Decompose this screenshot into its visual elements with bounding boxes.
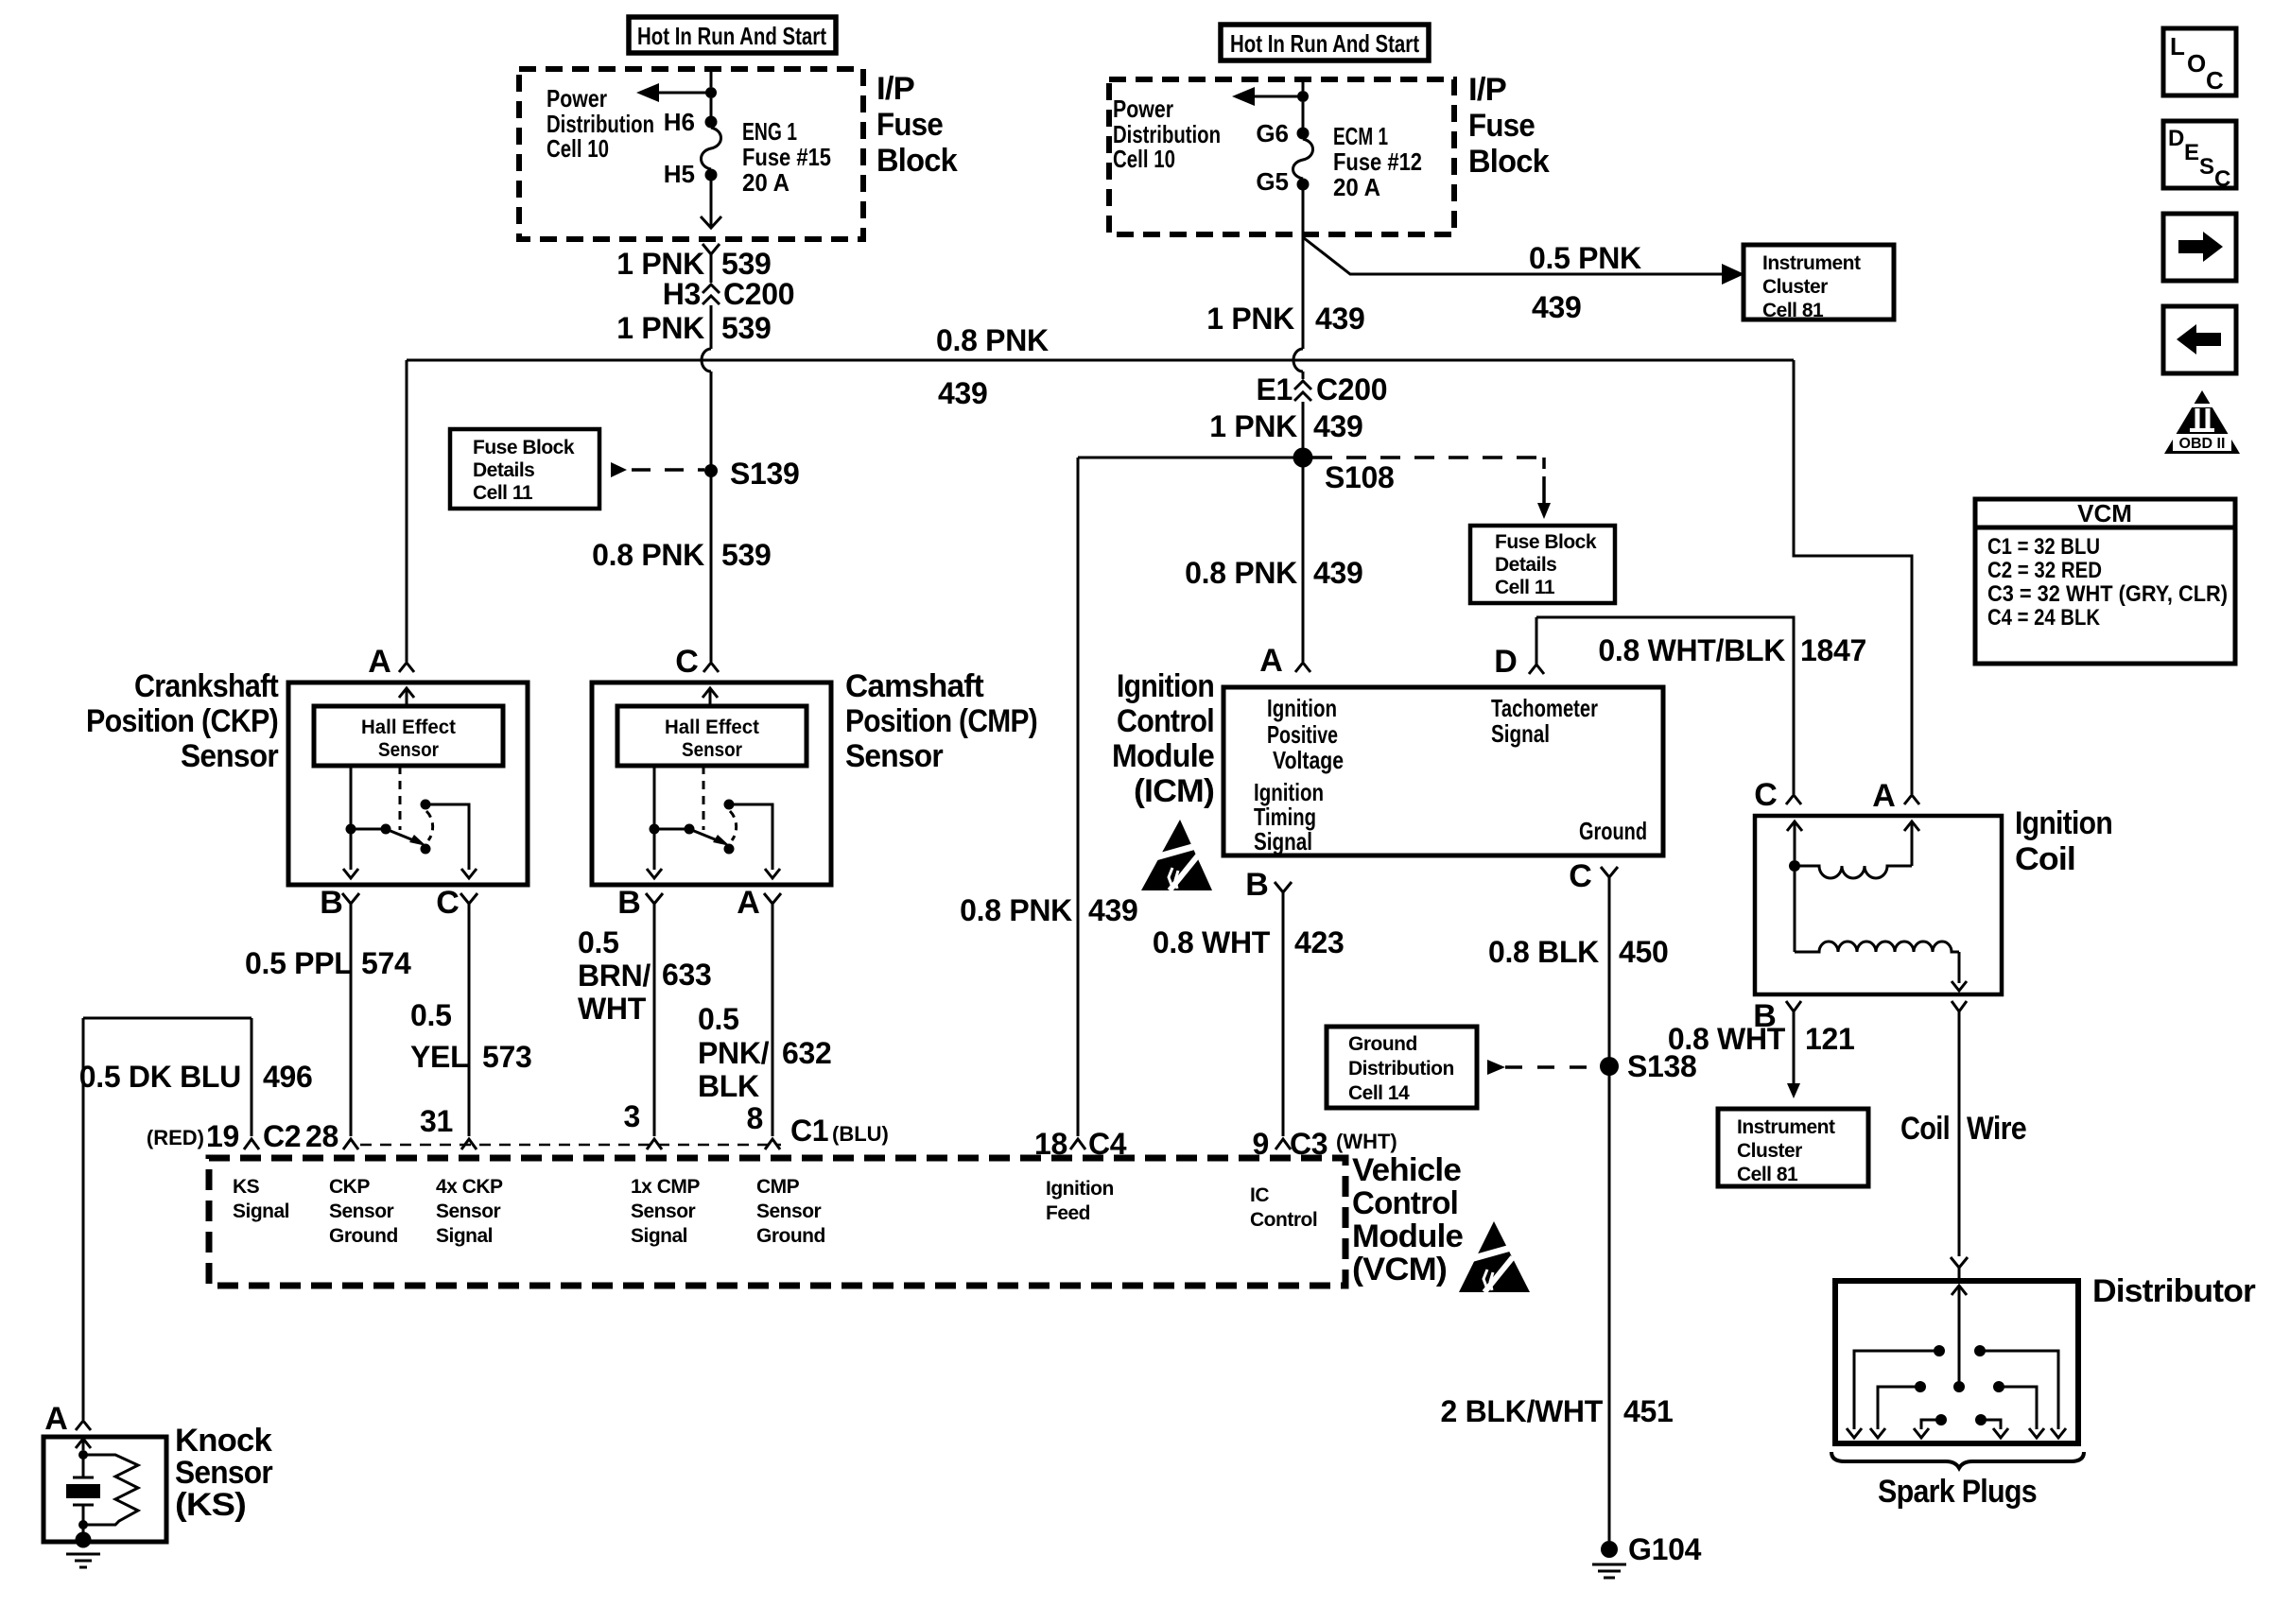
svg-text:0.8 WHT: 0.8 WHT <box>1153 925 1271 959</box>
svg-text:573: 573 <box>482 1040 532 1074</box>
svg-text:3: 3 <box>624 1099 641 1133</box>
svg-text:Hall Effect: Hall Effect <box>665 717 759 738</box>
svg-text:539: 539 <box>721 538 772 572</box>
svg-text:C200: C200 <box>723 277 794 311</box>
svg-text:C1: C1 <box>790 1114 828 1148</box>
svg-text:121: 121 <box>1805 1022 1855 1056</box>
svg-text:Sensor: Sensor <box>378 739 439 761</box>
svg-text:Sensor: Sensor <box>682 739 742 761</box>
svg-text:(VCM): (VCM) <box>1352 1252 1447 1287</box>
svg-text:Positive: Positive <box>1267 720 1338 749</box>
svg-text:Crankshaft: Crankshaft <box>134 668 278 704</box>
svg-text:Feed: Feed <box>1046 1202 1090 1224</box>
svg-text:S108: S108 <box>1325 460 1395 494</box>
svg-text:439: 439 <box>1313 556 1363 590</box>
svg-text:Sensor: Sensor <box>756 1201 822 1222</box>
svg-text:Signal: Signal <box>436 1225 493 1247</box>
svg-text:Cell 81: Cell 81 <box>1762 300 1824 321</box>
svg-text:E1: E1 <box>1256 372 1293 406</box>
svg-text:Control: Control <box>1117 703 1214 739</box>
svg-text:VCM: VCM <box>2077 499 2132 527</box>
svg-text:H3: H3 <box>663 277 701 311</box>
svg-text:451: 451 <box>1623 1394 1674 1428</box>
svg-text:Fuse #15: Fuse #15 <box>742 143 831 171</box>
svg-text:439: 439 <box>1313 409 1363 443</box>
svg-text:496: 496 <box>263 1060 313 1094</box>
svg-text:439: 439 <box>1088 893 1138 927</box>
svg-text:Signal: Signal <box>1254 827 1312 855</box>
svg-text:D: D <box>1494 644 1517 680</box>
svg-text:CMP: CMP <box>756 1176 800 1198</box>
svg-text:H5: H5 <box>664 160 695 188</box>
svg-text:0.5: 0.5 <box>410 998 452 1032</box>
svg-text:Ignition: Ignition <box>1046 1178 1114 1200</box>
svg-text:C3: C3 <box>1290 1127 1327 1161</box>
svg-text:C: C <box>675 644 698 680</box>
svg-text:(WHT): (WHT) <box>1336 1130 1397 1153</box>
svg-text:2 BLK/WHT: 2 BLK/WHT <box>1440 1394 1603 1428</box>
svg-text:423: 423 <box>1294 925 1345 959</box>
svg-text:0.8 WHT/BLK: 0.8 WHT/BLK <box>1598 633 1785 667</box>
svg-text:CKP: CKP <box>329 1176 370 1198</box>
svg-text:C3 = 32 WHT (GRY, CLR): C3 = 32 WHT (GRY, CLR) <box>1987 581 2228 607</box>
svg-text:BRN/: BRN/ <box>578 959 651 993</box>
svg-text:C200: C200 <box>1316 372 1387 406</box>
svg-text:Coil: Coil <box>2015 841 2075 877</box>
svg-text:Sensor: Sensor <box>329 1201 394 1222</box>
svg-text:S: S <box>2199 154 2214 180</box>
svg-text:28: 28 <box>305 1119 338 1153</box>
svg-text:Cluster: Cluster <box>1737 1140 1802 1162</box>
svg-text:Power: Power <box>547 84 607 112</box>
svg-text:Sensor: Sensor <box>175 1455 273 1491</box>
svg-text:WHT: WHT <box>578 992 647 1026</box>
svg-text:Hot In Run And Start: Hot In Run And Start <box>1230 29 1419 58</box>
svg-text:Tachometer: Tachometer <box>1491 694 1598 722</box>
svg-text:Fuse Block: Fuse Block <box>1495 531 1597 553</box>
svg-text:D: D <box>2168 126 2184 151</box>
svg-text:1 PNK: 1 PNK <box>616 311 704 345</box>
svg-text:Sensor: Sensor <box>631 1201 696 1222</box>
svg-text:L: L <box>2170 32 2185 60</box>
svg-text:Distributor: Distributor <box>2092 1273 2256 1309</box>
svg-text:Voltage: Voltage <box>1273 746 1344 774</box>
svg-text:0.8 PNK: 0.8 PNK <box>1185 556 1297 590</box>
svg-text:OBD II: OBD II <box>2179 436 2226 452</box>
svg-text:1x CMP: 1x CMP <box>631 1176 700 1198</box>
svg-text:Ground: Ground <box>1579 817 1647 845</box>
svg-text:(RED): (RED) <box>147 1126 204 1149</box>
svg-text:G104: G104 <box>1628 1532 1702 1566</box>
svg-text:Instrument: Instrument <box>1737 1116 1835 1138</box>
svg-text:Coil: Coil <box>1900 1111 1950 1147</box>
svg-text:Signal: Signal <box>233 1201 289 1222</box>
svg-text:4x CKP: 4x CKP <box>436 1176 503 1198</box>
svg-text:20 A: 20 A <box>742 168 789 197</box>
svg-text:Ignition: Ignition <box>1117 668 1214 704</box>
svg-text:Sensor: Sensor <box>436 1201 501 1222</box>
svg-text:A: A <box>44 1401 67 1437</box>
svg-text:439: 439 <box>1315 302 1365 336</box>
svg-text:E: E <box>2184 140 2199 165</box>
svg-text:Signal: Signal <box>631 1225 687 1247</box>
svg-text:Ground: Ground <box>329 1225 398 1247</box>
svg-text:C4 = 24 BLK: C4 = 24 BLK <box>1987 605 2101 631</box>
svg-text:Cell 11: Cell 11 <box>1495 577 1555 598</box>
svg-text:0.5 DK BLU: 0.5 DK BLU <box>79 1060 241 1094</box>
svg-text:1847: 1847 <box>1800 633 1866 667</box>
svg-text:9: 9 <box>1253 1127 1270 1161</box>
svg-text:Cell 10: Cell 10 <box>547 134 609 163</box>
svg-text:C: C <box>1569 858 1591 894</box>
svg-text:Sensor: Sensor <box>845 738 944 774</box>
svg-text:Camshaft: Camshaft <box>845 668 983 704</box>
svg-text:19: 19 <box>206 1119 239 1153</box>
svg-text:Details: Details <box>473 459 534 481</box>
svg-text:574: 574 <box>361 946 411 980</box>
svg-text:Ignition: Ignition <box>1267 694 1337 722</box>
svg-text:PNK/: PNK/ <box>698 1036 770 1070</box>
svg-text:31: 31 <box>420 1104 453 1138</box>
svg-text:I/P: I/P <box>1468 72 1506 108</box>
svg-text:20 A: 20 A <box>1333 173 1380 201</box>
svg-text:Fuse Block: Fuse Block <box>473 437 575 458</box>
svg-text:YEL: YEL <box>410 1040 468 1074</box>
svg-text:450: 450 <box>1619 935 1669 969</box>
svg-text:8: 8 <box>747 1101 764 1135</box>
svg-text:1 PNK: 1 PNK <box>616 247 704 281</box>
svg-text:H6: H6 <box>664 108 695 136</box>
svg-text:0.8 BLK: 0.8 BLK <box>1488 935 1599 969</box>
svg-text:633: 633 <box>662 958 712 992</box>
svg-text:Hot In Run And Start: Hot In Run And Start <box>637 22 826 50</box>
svg-text:C2: C2 <box>263 1119 301 1153</box>
svg-text:ECM 1: ECM 1 <box>1333 122 1388 150</box>
svg-text:(KS): (KS) <box>175 1487 246 1523</box>
svg-text:KS: KS <box>233 1176 260 1198</box>
svg-text:Details: Details <box>1495 554 1556 576</box>
svg-text:Fuse: Fuse <box>876 107 943 143</box>
svg-text:Sensor: Sensor <box>181 738 279 774</box>
svg-text:Cell 11: Cell 11 <box>473 482 533 504</box>
svg-text:0.8 PNK: 0.8 PNK <box>936 323 1049 357</box>
svg-text:Spark Plugs: Spark Plugs <box>1878 1474 2037 1510</box>
svg-text:539: 539 <box>721 311 772 345</box>
svg-text:0.5 PPL: 0.5 PPL <box>245 946 353 980</box>
svg-text:A: A <box>368 644 390 680</box>
svg-text:Block: Block <box>876 143 958 179</box>
svg-text:Vehicle: Vehicle <box>1352 1152 1461 1188</box>
svg-text:18: 18 <box>1034 1127 1067 1161</box>
svg-text:B: B <box>320 885 342 921</box>
svg-text:Cell 81: Cell 81 <box>1737 1164 1798 1185</box>
svg-text:G5: G5 <box>1256 167 1289 196</box>
svg-text:0.5: 0.5 <box>578 925 619 959</box>
svg-text:B: B <box>1245 867 1268 903</box>
svg-text:IC: IC <box>1250 1184 1269 1206</box>
svg-text:G6: G6 <box>1256 119 1289 147</box>
svg-text:Cell 14: Cell 14 <box>1348 1082 1410 1104</box>
svg-text:B: B <box>617 885 640 921</box>
svg-text:539: 539 <box>721 247 772 281</box>
svg-text:C4: C4 <box>1088 1127 1127 1161</box>
svg-text:Module: Module <box>1352 1218 1463 1254</box>
svg-text:A: A <box>737 885 759 921</box>
svg-text:(ICM): (ICM) <box>1134 773 1214 809</box>
svg-text:I/P: I/P <box>876 71 914 107</box>
svg-text:Block: Block <box>1468 144 1550 180</box>
svg-text:Hall Effect: Hall Effect <box>361 717 456 738</box>
svg-text:Ground: Ground <box>756 1225 825 1247</box>
svg-text:C2 = 32 RED: C2 = 32 RED <box>1987 558 2102 583</box>
svg-text:Power: Power <box>1113 95 1173 123</box>
svg-text:Ground: Ground <box>1348 1033 1417 1055</box>
svg-text:Distribution: Distribution <box>1348 1058 1454 1080</box>
svg-text:A: A <box>1259 643 1282 679</box>
svg-text:0.5: 0.5 <box>698 1002 739 1036</box>
svg-text:C: C <box>436 885 459 921</box>
svg-text:ENG 1: ENG 1 <box>742 117 797 146</box>
svg-text:C: C <box>2214 166 2230 192</box>
svg-text:439: 439 <box>938 376 988 410</box>
svg-text:Fuse #12: Fuse #12 <box>1333 147 1422 176</box>
svg-text:C: C <box>2206 66 2224 95</box>
svg-text:632: 632 <box>782 1036 832 1070</box>
svg-text:0.8 PNK: 0.8 PNK <box>960 893 1072 927</box>
svg-text:C1 = 32 BLU: C1 = 32 BLU <box>1987 534 2100 560</box>
svg-text:Position (CMP): Position (CMP) <box>845 703 1037 739</box>
svg-text:S139: S139 <box>730 457 800 491</box>
svg-text:A: A <box>1872 778 1895 814</box>
svg-text:Cluster: Cluster <box>1762 276 1828 298</box>
svg-text:Instrument: Instrument <box>1762 252 1861 274</box>
svg-text:Knock: Knock <box>175 1423 272 1459</box>
svg-text:0.8 PNK: 0.8 PNK <box>592 538 704 572</box>
svg-text:Signal: Signal <box>1491 719 1550 748</box>
svg-text:(BLU): (BLU) <box>832 1122 889 1146</box>
svg-text:BLK: BLK <box>698 1069 759 1103</box>
svg-text:O: O <box>2187 49 2206 78</box>
svg-text:Control: Control <box>1250 1209 1317 1231</box>
svg-text:Control: Control <box>1352 1185 1458 1221</box>
svg-text:Ignition: Ignition <box>2015 805 2112 841</box>
svg-text:Wire: Wire <box>1967 1111 2026 1147</box>
svg-text:Position (CKP): Position (CKP) <box>86 703 278 739</box>
svg-text:Cell 10: Cell 10 <box>1113 145 1175 173</box>
svg-text:1 PNK: 1 PNK <box>1206 302 1294 336</box>
svg-text:1 PNK: 1 PNK <box>1209 409 1297 443</box>
svg-text:Fuse: Fuse <box>1468 108 1535 144</box>
svg-text:439: 439 <box>1532 290 1582 324</box>
svg-text:0.5 PNK: 0.5 PNK <box>1529 241 1641 275</box>
svg-text:B: B <box>1753 998 1776 1034</box>
svg-text:Module: Module <box>1112 738 1214 774</box>
svg-text:C: C <box>1754 777 1777 813</box>
